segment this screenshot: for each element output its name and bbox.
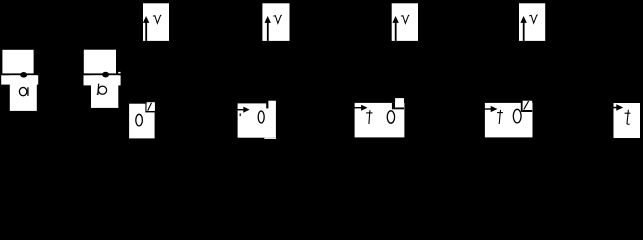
far-right t-axis arrow shaft — [612, 107, 618, 109]
far-right t-axis arrowhead — [616, 104, 623, 111]
graph3 v label — [401, 15, 409, 23]
graph2 v label — [273, 15, 281, 23]
label a — [19, 87, 28, 96]
pulse-a lower band white box — [1, 75, 38, 84]
graph2 0 label — [258, 111, 264, 123]
graph2 origin white box — [238, 103, 276, 137]
graph2 t-axis arrow shaft — [237, 109, 244, 110]
graph4 t label — [497, 110, 503, 124]
graph3 t label — [366, 110, 372, 124]
graph1 gap below corner square — [145, 111, 155, 113]
graph4 v arrowhead — [520, 16, 526, 23]
graph2 v-axis white box — [262, 3, 289, 41]
pulse-a label white box — [10, 75, 37, 111]
graph1 v-axis shaft — [145, 22, 147, 41]
graph3 gap below corner square — [395, 107, 404, 109]
pulse-b label white box — [91, 75, 118, 108]
graph3 0 label — [387, 111, 394, 123]
graph2 t-axis arrowhead — [243, 107, 249, 113]
graph1 gap left of corner square — [145, 102, 146, 112]
graph4 v-axis shaft — [523, 22, 525, 41]
graph4 v-axis white box — [519, 3, 545, 41]
graph1 v label — [153, 15, 161, 23]
pulse-a top white box — [2, 50, 33, 74]
graph4 corner white square — [523, 101, 533, 110]
pulse-b top white box — [84, 50, 116, 74]
graph4 origin white box — [485, 103, 533, 137]
graph4 0 label — [513, 109, 521, 123]
graph1 v arrowhead — [143, 16, 149, 23]
graph1 v-axis white box — [143, 3, 169, 41]
graph4 t-axis arrow shaft — [484, 108, 492, 109]
far-right t label — [625, 110, 631, 124]
graph1 diagonal curve fragment — [148, 103, 152, 111]
graph4 t-axis arrowhead — [491, 106, 498, 112]
graph3 gap left of corner square — [392, 103, 395, 109]
graph4 v label — [529, 15, 537, 23]
graph4 gap left of corner square — [521, 101, 523, 112]
graph2 origin box bottom step — [264, 138, 276, 139]
graph1 0 label — [136, 114, 143, 126]
string dot a — [20, 72, 27, 78]
pulse-b lower band white box — [84, 75, 121, 85]
graph2 corner white square — [268, 101, 276, 105]
white notch above string line right of pulse-b top box — [118, 72, 120, 74]
graph4 gap below corner square — [523, 110, 533, 112]
graph3 t-axis arrowhead — [361, 105, 367, 111]
graph2 v arrowhead — [265, 16, 271, 23]
graph2 axis stub — [240, 113, 241, 116]
graph1 origin white box — [129, 104, 155, 139]
graph3 v-axis white box — [392, 3, 418, 41]
graph3 v arrowhead — [392, 16, 398, 23]
graph3 v-axis shaft — [395, 22, 397, 41]
graph2 gap left of corner square — [266, 101, 268, 109]
graph2 v-axis shaft — [267, 22, 269, 41]
graph3 origin white box — [355, 103, 405, 137]
graph3 t-axis arrow shaft — [354, 107, 362, 108]
graph4 diagonal curve fragment — [524, 101, 529, 109]
graph3 corner white square — [395, 98, 404, 107]
far-right t-axis white box — [614, 103, 641, 138]
graph1 corner white square — [147, 102, 155, 111]
string dot b — [102, 72, 109, 78]
label b — [97, 84, 107, 95]
